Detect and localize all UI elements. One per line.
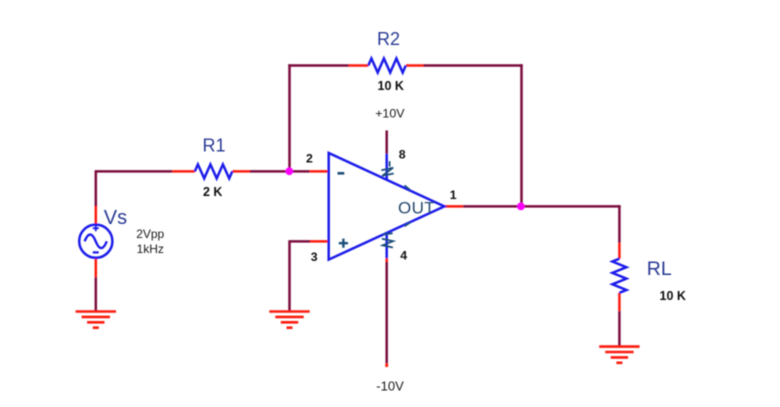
node A input junction dot — [285, 167, 293, 175]
op-amp top edge tick — [405, 185, 410, 189]
svg-text:OUT: OUT — [398, 199, 435, 218]
svg-text:1kHz: 1kHz — [137, 242, 164, 256]
svg-text:Vs: Vs — [104, 207, 127, 229]
op-amp non-inverting input plus mark — [339, 239, 348, 248]
wire -10V supply red tip — [385, 258, 388, 262]
ground under Vs — [76, 312, 116, 328]
svg-text:-10V: -10V — [376, 379, 404, 394]
svg-text:10 K: 10 K — [660, 289, 686, 303]
wire pin3 horizontal — [290, 240, 311, 243]
wire -10V supply vertical — [385, 262, 388, 363]
source Vs sine wave — [85, 235, 107, 249]
resistor R1 — [195, 164, 233, 178]
wire RL top red lead — [618, 243, 621, 259]
wire R2 left red lead — [349, 64, 369, 67]
svg-text:2 K: 2 K — [203, 185, 222, 199]
svg-text:R2: R2 — [377, 29, 400, 49]
wire Vs to ground — [95, 277, 98, 311]
svg-text:3: 3 — [311, 250, 318, 264]
wire RL vertical top — [618, 205, 621, 243]
wire pin3 red lead — [310, 240, 329, 243]
op-amp bottom edge tick — [405, 223, 411, 227]
resistor RL — [612, 259, 626, 293]
op-amp pin8 squiggle — [381, 168, 393, 176]
wire Vs top red lead — [95, 206, 98, 226]
ground under pin3 — [269, 312, 309, 328]
svg-text:2Vpp: 2Vpp — [136, 227, 164, 241]
source Vs minus mark — [93, 251, 99, 253]
wire R2 right red lead — [406, 64, 424, 67]
svg-text:8: 8 — [399, 148, 406, 162]
op-amp pin4 tick — [383, 233, 392, 234]
op-amp inverting input minus mark — [338, 172, 345, 175]
svg-text:4: 4 — [400, 249, 407, 263]
wire feedback right vertical — [520, 64, 523, 206]
svg-text:2: 2 — [306, 152, 313, 166]
op-amp pin8 power stub — [385, 154, 388, 181]
source Vs plus mark — [93, 225, 99, 231]
wire -10V supply bottom red tip — [385, 363, 388, 367]
op-amp pin4 power stub — [385, 233, 388, 259]
node B output junction dot — [517, 203, 525, 211]
wire +10V supply vertical — [385, 130, 388, 153]
svg-text:RL: RL — [647, 258, 672, 280]
wire R1 to node A — [250, 170, 310, 173]
wire R2 row left — [288, 64, 348, 67]
op-amp pin8 tick — [389, 161, 391, 166]
source Vs circle — [79, 225, 112, 258]
op-amp pin4 squiggle — [382, 239, 393, 248]
wire output row — [463, 205, 620, 208]
op-amp U1 triangle — [329, 153, 445, 260]
wire R1 right red lead — [232, 170, 250, 173]
svg-text:+10V: +10V — [375, 106, 405, 120]
ground under RL — [599, 347, 639, 363]
wire RL to ground — [618, 311, 621, 346]
wire feedback left vertical — [288, 64, 291, 171]
wire RL bottom red lead — [618, 293, 621, 311]
wire Vs top vertical — [95, 170, 98, 206]
wire pin3 vertical to ground — [288, 240, 291, 311]
resistor R2 — [368, 59, 406, 73]
wire Vs bottom red lead — [95, 257, 98, 277]
svg-text:1: 1 — [450, 188, 457, 202]
wire R2 row right — [424, 64, 523, 67]
svg-text:10 K: 10 K — [378, 79, 404, 93]
svg-text:R1: R1 — [203, 136, 226, 156]
wire R1 left red lead — [172, 170, 195, 173]
wire input row left — [96, 170, 173, 173]
wire pin2 red lead — [310, 170, 329, 173]
wire pin1 red lead — [445, 205, 464, 208]
